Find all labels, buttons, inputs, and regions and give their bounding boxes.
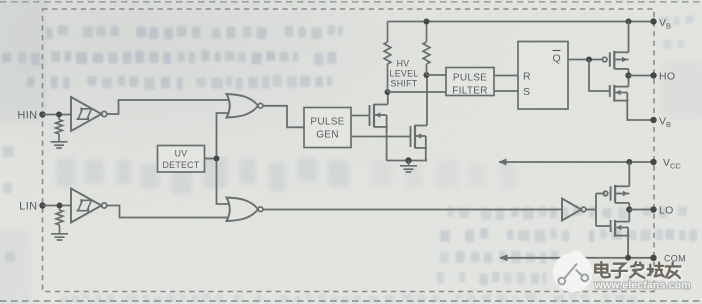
wire Q3 source to VB rail: [628, 22, 630, 53]
wire NOR2 out to inverter U6: [263, 209, 562, 211]
resistor R1 HIN pulldown: [56, 117, 63, 141]
wire U2 out to NOR2: [107, 206, 228, 218]
wire Q1 source down: [386, 127, 388, 161]
block U3 UV DETECT: [158, 146, 205, 173]
resistor R2 LIN pulldown: [56, 208, 63, 233]
rail COM: [500, 257, 654, 259]
node rail Q5: [626, 159, 632, 165]
wire NOR1 out to PULSE GEN: [263, 106, 304, 128]
wire PULSE FILTER to S input: [494, 90, 518, 92]
transistor Q3 HO pmos: [602, 51, 628, 69]
node HIN pad: [39, 111, 45, 117]
node UV junction: [214, 156, 220, 162]
wire Q1 drain up: [387, 92, 389, 105]
node LO pad: [650, 206, 656, 212]
wire Q6 drain to LO node: [628, 210, 630, 222]
node VS pad: [650, 117, 656, 123]
node rail R4: [424, 19, 430, 25]
wire UV DETECT output: [205, 158, 217, 160]
rail VCC: [499, 161, 654, 163]
wire LO node to pad: [629, 209, 653, 211]
wire node B to PULSE FILTER R: [427, 74, 447, 76]
block U5 PULSE FILTER: [446, 68, 494, 96]
node Q2 drain: [424, 72, 430, 78]
resistor R3 level shift: [384, 22, 391, 93]
ground LIN: [51, 234, 68, 240]
node COM pad: [650, 255, 656, 261]
wire to Q5 gate: [596, 193, 606, 195]
node rail Q3: [626, 19, 632, 25]
transistor Q4 HO nmos: [610, 85, 629, 102]
wire Q6 source down to COM: [627, 236, 629, 258]
wire sources to ground rail: [387, 160, 427, 162]
label Qbar: [553, 51, 561, 65]
arrow COM left: [500, 254, 508, 261]
watermark logo drop: [553, 250, 593, 292]
node LIN pad: [39, 202, 45, 208]
wire U1 out to NOR1: [107, 100, 228, 114]
rail VB top: [388, 21, 654, 23]
schmitt buffer U1 HIN: [71, 97, 107, 131]
wire Q5 drain to LO node: [628, 203, 630, 210]
wire U6 out riser: [586, 194, 596, 227]
page rule bottom: [0, 300, 702, 302]
ground HIN: [51, 142, 68, 148]
node VCC pad: [650, 159, 656, 165]
wire PULSE GEN to Q2 gate: [351, 136, 411, 138]
resistor R4 level shift: [423, 22, 430, 76]
wire node A to PULSE FILTER S: [388, 91, 447, 93]
node HO pad: [650, 72, 656, 78]
node HO output: [625, 72, 631, 78]
wire HIN to buffer: [43, 114, 72, 116]
wire UV to NOR2 input: [217, 162, 230, 205]
nor gate NOR1 HIN: [227, 94, 263, 118]
wire Q3 drain to HO node: [628, 69, 630, 76]
wire Q4 source down to VS: [627, 101, 653, 120]
node LO output: [626, 206, 632, 212]
nor gate NOR2 LIN: [227, 198, 263, 222]
node HIN junction: [56, 112, 62, 118]
wire Qbar out: [568, 59, 602, 61]
node VB pad: [650, 18, 656, 24]
transistor Q5 LO pmos: [603, 185, 629, 203]
block U4 PULSE GEN: [304, 108, 351, 148]
node Qbar junction: [586, 57, 592, 63]
inverter U6 LO: [562, 199, 586, 221]
wire HO node to pad: [629, 75, 654, 77]
ground level shift: [400, 161, 417, 173]
block U7 RS latch: [518, 42, 568, 110]
watermark text elecfans CJK: [595, 262, 681, 279]
node Q1 drain: [385, 89, 391, 95]
node LIN junction: [57, 203, 63, 209]
page rule top: [0, 1, 702, 3]
schmitt buffer U2 LIN: [71, 189, 107, 223]
wire Q2 source down: [425, 148, 427, 161]
wire PULSE GEN to Q1 gate: [351, 115, 370, 117]
arrow VCC left: [499, 158, 507, 165]
wire PULSE FILTER to R input: [494, 75, 518, 77]
wire to Q6 gate: [596, 225, 611, 227]
transistor Q6 LO nmos: [611, 220, 630, 237]
wire Q4 drain to HO node: [628, 76, 630, 87]
wire Q2 drain up: [426, 75, 428, 126]
wire Q5 source to VCC: [628, 162, 630, 186]
transistor Q1 level shift: [370, 104, 388, 127]
wire Qbar to Q4 gate: [589, 60, 610, 92]
node rail Q6: [625, 255, 631, 261]
transistor Q2 level shift: [411, 125, 428, 148]
wire LIN to buffer: [43, 205, 72, 207]
node ground junction: [405, 157, 411, 163]
wire UV to NOR1 input: [217, 113, 230, 156]
